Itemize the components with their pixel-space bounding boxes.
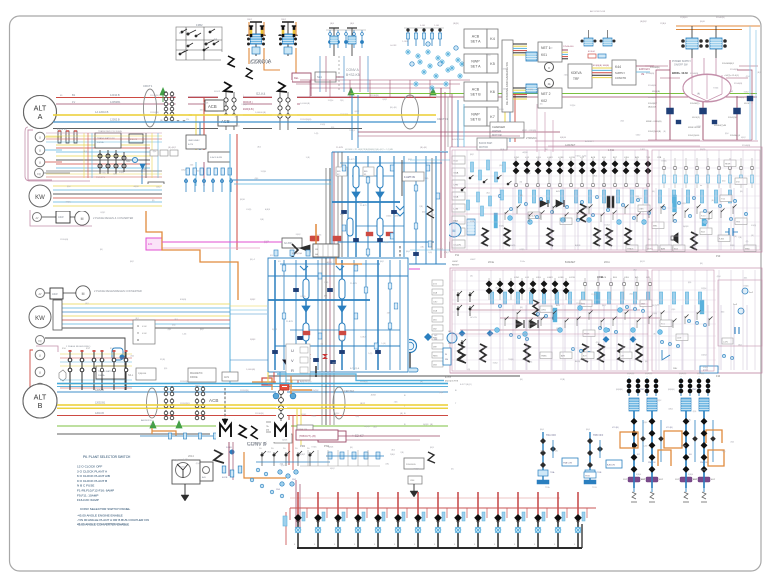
cluster1 box F-AMT-ON <box>400 172 422 181</box>
svg-text:12(B)4: 12(B)4 <box>604 225 610 227</box>
bus ALT B green <box>57 425 448 427</box>
box K-ACS E42B <box>208 152 230 162</box>
ACB A breaker chain right <box>281 97 287 128</box>
grid A blue dot nodes <box>508 216 708 225</box>
bus ALT A red phase <box>56 97 436 99</box>
svg-text:(B)0: (B)0 <box>644 422 648 424</box>
svg-text:2(B): 2(B) <box>190 164 194 166</box>
svg-text:E4P2 E1V: E4P2 E1V <box>639 68 650 71</box>
svg-text:2O11: 2O11 <box>604 261 610 264</box>
CT ellipse ALT B left <box>147 388 158 418</box>
svg-text:(B)1: (B)1 <box>164 368 168 370</box>
svg-text:(B)+(B): (B)+(B) <box>390 107 397 109</box>
yellow riser pair ALT B <box>296 408 298 440</box>
contact chain F7 <box>123 152 125 172</box>
svg-text:(B)4: (B)4 <box>153 151 157 153</box>
svg-text:2O4a: 2O4a <box>488 261 495 264</box>
svg-text:2(B): 2(B) <box>564 75 568 77</box>
svg-text:CRCT1: CRCT1 <box>143 84 153 88</box>
green arrow CRCT1 <box>160 88 166 95</box>
ACB B chain rebuilt <box>276 387 287 421</box>
svg-text:K-ACS E42B: K-ACS E42B <box>210 156 223 159</box>
blue riser pair into grid A <box>457 100 459 147</box>
svg-text:(B): (B) <box>520 181 523 183</box>
ACB A cluster final left <box>218 92 243 134</box>
comb feeder column 12 <box>514 492 527 548</box>
net box NET2 K02 <box>538 88 562 108</box>
svg-text:12052.B: 12052.B <box>110 118 120 122</box>
svg-text:I-ON: I-ON <box>470 221 475 223</box>
contactor M1 ALT B final <box>220 424 231 437</box>
maroon box PN2-0F <box>318 431 346 442</box>
cluster1 capsule resistor 2 <box>373 163 379 187</box>
svg-text:TRB: TRB <box>597 472 602 474</box>
svg-text:RESET: RESET <box>452 265 460 267</box>
svg-text:12052(B): 12052(B) <box>150 112 159 114</box>
svg-text:A/B: A/B <box>202 476 206 479</box>
grid A diamonds bold <box>513 161 652 175</box>
ACB A breaker chain left <box>227 97 233 128</box>
svg-text:12010(B): 12010(B) <box>255 413 264 415</box>
svg-text:K44: K44 <box>615 65 621 69</box>
converter relay chain 4 <box>693 376 716 502</box>
svg-text:32040(B): 32040(B) <box>734 83 743 85</box>
svg-text:A-RESET: A-RESET <box>585 140 594 143</box>
vertical legend box de-ionizing <box>502 40 513 112</box>
cluster1 capsule R4 <box>377 218 383 236</box>
cluster2 diodes v2 <box>302 306 346 312</box>
transformer stack T-CONVA-1 <box>247 22 265 56</box>
leftover contact circles cleanup <box>174 112 192 123</box>
svg-text:0(B)2: 0(B)2 <box>668 409 673 411</box>
ALT A tiny labels row2 <box>186 91 221 121</box>
cluster2 horizontal links <box>268 276 408 346</box>
svg-text:12010(B): 12010(B) <box>60 239 69 241</box>
supply drop mid maroon <box>702 102 704 140</box>
svg-text:S-CLR: S-CLR <box>529 216 536 218</box>
grid B small right boxes <box>540 300 688 359</box>
svg-text:1-(B): 1-(B) <box>306 157 311 159</box>
svg-text:(B)0: (B)0 <box>549 47 553 49</box>
cluster2 vertical rails <box>275 258 400 372</box>
svg-text:VCL(B): VCL(B) <box>612 427 619 429</box>
svg-text:3204M(B): 3204M(B) <box>650 67 660 69</box>
svg-text:B-TR(B).B: B-TR(B).B <box>350 368 360 370</box>
box BC3 STA <box>258 422 278 432</box>
cluster 1 rebuild base <box>331 151 449 269</box>
dashed riser x339 <box>338 56 340 92</box>
bus ALT B blue <box>57 391 448 393</box>
svg-text:0(B)2: 0(B)2 <box>156 186 161 188</box>
cluster1 dense infill <box>334 154 446 264</box>
svg-text:-45.00 ANGLE ENGINE ENABLE: -45.00 ANGLE ENGINE ENABLE <box>77 514 123 518</box>
svg-text:(B): (B) <box>468 369 471 371</box>
grid B inner verticals dense <box>455 270 755 370</box>
bus phase tiny labels <box>404 390 457 426</box>
comb bold overlay <box>290 492 596 548</box>
bus ALT B cyan pair upper <box>57 383 448 385</box>
svg-text:A: A <box>38 112 43 121</box>
svg-text:12(B)4: 12(B)4 <box>591 294 597 296</box>
cluster2 navy nodes v2 <box>272 288 380 364</box>
svg-text:12(B)4: 12(B)4 <box>570 105 576 107</box>
svg-text:(B)4: (B)4 <box>487 54 491 56</box>
svg-text:12(B)4: 12(B)4 <box>364 426 370 428</box>
grid A scatter nodes blue <box>498 194 747 222</box>
svg-text:GDA: GDA <box>454 172 459 175</box>
ACB A contact cluster right rebuilt <box>275 93 294 133</box>
black frame ALT B metering <box>45 338 125 390</box>
svg-text:CONCTD: CONCTD <box>615 76 626 80</box>
svg-text:32040(B): 32040(B) <box>730 69 739 71</box>
svg-text:K(B)4: K(B)4 <box>688 474 694 476</box>
bottom mid blue wire <box>256 461 330 463</box>
grid A diode pair <box>540 200 564 207</box>
svg-text:AB 12/3097-098: AB 12/3097-098 <box>590 10 606 13</box>
svg-text:12540-000: 12540-000 <box>563 46 574 48</box>
orange loop chain4 <box>708 450 724 466</box>
svg-text:2(B): 2(B) <box>419 206 423 208</box>
ACB chains bold <box>227 97 288 130</box>
svg-text:F10: F10 <box>716 375 721 378</box>
magenta wire pair <box>162 241 282 243</box>
svg-text:12052(B): 12052(B) <box>240 390 249 392</box>
svg-text:N B C FUSE: N B C FUSE <box>77 484 94 488</box>
switch box ASW <box>56 211 70 223</box>
cluster1 diode D2 <box>376 192 384 198</box>
svg-text:KO2: KO2 <box>454 161 459 163</box>
svg-text:K5: K5 <box>490 62 495 66</box>
svg-text:(TRB:DVT)--(B): (TRB:DVT)--(B) <box>299 435 316 438</box>
component E3-K44 small <box>588 54 596 58</box>
svg-text:GC: GC <box>434 335 438 337</box>
svg-text:AF(B): AF(B) <box>575 360 581 363</box>
orange loop chain1 <box>612 431 630 448</box>
comb feeder column 6 <box>394 492 407 548</box>
maroon drop pair bottom <box>295 480 297 530</box>
grid B switch marks scatter <box>505 311 713 329</box>
svg-text:2(B): 2(B) <box>733 236 737 238</box>
svg-text:L-DN: L-DN <box>723 342 728 344</box>
contact chain T4 <box>107 150 109 174</box>
svg-text:2 PHASE REGEN/REGEN CONVERTER: 2 PHASE REGEN/REGEN CONVERTER <box>94 289 142 293</box>
svg-text:(B): (B) <box>697 93 700 95</box>
svg-text:BRID+ 10-M: BRID+ 10-M <box>672 71 688 75</box>
box C6S6 ALT B <box>297 425 313 434</box>
stepped cyan link <box>277 374 444 381</box>
svg-text:B+S2-K5: B+S2-K5 <box>346 73 360 77</box>
svg-text:1-(B): 1-(B) <box>324 282 329 284</box>
mini cluster snowflakes <box>417 59 465 71</box>
svg-text:K7: K7 <box>490 115 495 119</box>
cluster 2 rebuild base <box>267 257 409 373</box>
navy boxes cluster2 bottom <box>313 358 321 363</box>
svg-text:(B)(B)(B): (B)(B)(B) <box>627 373 635 375</box>
svg-text:B1: B1 <box>72 93 76 97</box>
svg-text:B-RESET: B-RESET <box>565 261 576 264</box>
blue loop F16 <box>112 348 123 360</box>
remove extra contact columns near ALT A bus <box>176 89 189 112</box>
cluster2 black diode v2 <box>283 360 290 365</box>
coil K01 pair <box>526 52 537 61</box>
cluster2 red tags low <box>302 330 309 334</box>
svg-text:(B): (B) <box>751 235 754 237</box>
aux caps row ALT B <box>168 433 246 439</box>
svg-text:NWP: NWP <box>471 60 480 64</box>
svg-text:(B): (B) <box>520 379 523 381</box>
relay logic grid B frame <box>450 268 762 373</box>
bus ALT A yellow phase <box>53 114 436 116</box>
svg-text:CRCTF1: CRCTF1 <box>437 117 448 121</box>
svg-text:THB: THB <box>646 157 651 159</box>
voltmeter circle V1 <box>35 132 45 142</box>
svg-text:AFB: AFB <box>561 355 566 358</box>
contactor M2 ALT B <box>275 424 287 438</box>
tower posts detail <box>249 26 296 37</box>
zigzag arrow bottom mid <box>214 450 224 463</box>
svg-text:E30(B): E30(B) <box>180 299 187 301</box>
freq meter FQ <box>35 169 44 178</box>
svg-text:(B)1: (B)1 <box>324 295 328 297</box>
ammeter AV A <box>33 213 42 222</box>
dashed trip arrow redraw <box>224 388 226 419</box>
svg-text:(B): (B) <box>652 191 655 193</box>
wire blue drop to KW rows <box>142 169 152 186</box>
orange loop chain1 reposition <box>610 429 638 450</box>
svg-text:(B)0: (B)0 <box>606 238 610 240</box>
ALT B metering wire tangle <box>60 354 132 388</box>
terminal table box C6-G4 restore <box>313 244 339 257</box>
svg-text:(B)1: (B)1 <box>331 127 335 129</box>
ACB box 2 <box>218 115 237 126</box>
svg-text:E-3Y2: E-3Y2 <box>445 377 452 379</box>
svg-text:(B)4: (B)4 <box>196 171 200 173</box>
svg-text:ACS: ACS <box>224 376 229 379</box>
grid A feeder box b-dof <box>477 138 507 150</box>
cluster1 blue diode 1 <box>348 190 356 197</box>
svg-text:12(B): 12(B) <box>560 379 565 381</box>
svg-text:(B)B(B): (B)B(B) <box>616 389 623 391</box>
grid A dark bar component <box>607 196 610 208</box>
svg-text:12(B)4: 12(B)4 <box>637 198 643 200</box>
governor motor circle cluster2 <box>404 340 419 373</box>
power transformer PS-A <box>682 26 703 58</box>
cluster1 chevrons v2 <box>396 206 404 216</box>
supply drop right maroon <box>736 96 738 140</box>
top mid wiring maroon <box>310 77 312 96</box>
legend overlay larger <box>70 450 168 527</box>
svg-text:2(B): 2(B) <box>394 402 398 404</box>
grid A header labels <box>514 144 662 159</box>
svg-text:0(B)2: 0(B)2 <box>741 137 746 139</box>
contactor zigzag pair ALT B <box>240 426 262 440</box>
svg-text:(B)0: (B)0 <box>672 309 676 311</box>
svg-text:NL1: NL1 <box>317 75 322 79</box>
svg-text:1-(B): 1-(B) <box>655 304 660 306</box>
voltmeter circle VB3 <box>35 383 45 393</box>
svg-text:(B)0: (B)0 <box>257 147 261 149</box>
svg-text:MWR - 01K0(B): MWR - 01K0(B) <box>646 121 662 123</box>
maroon box E30-017 <box>296 430 338 440</box>
svg-text:(B)4: (B)4 <box>746 76 750 78</box>
ribbon to KDEVA <box>562 46 574 59</box>
svg-text:VE: VE <box>641 73 645 76</box>
comb feeder column 15 <box>574 492 587 548</box>
stepped cyan link v2 <box>277 374 444 381</box>
svg-text:F9,F11: 10AMP: F9,F11: 10AMP <box>77 493 98 497</box>
svg-text:(B)4: (B)4 <box>717 276 721 278</box>
fuse chains F10-F15 <box>62 348 128 390</box>
svg-text:E02B: E02B <box>222 477 228 479</box>
cluster2 frame v2 <box>268 258 408 372</box>
svg-text:sM: sM <box>621 356 624 358</box>
KW A extra wires <box>52 186 166 210</box>
svg-text:BID: BID <box>337 171 341 173</box>
svg-text:(B)0: (B)0 <box>385 242 389 244</box>
svg-text:A(B)B: A(B)B <box>683 225 689 228</box>
ALT B contact pair chains left <box>164 386 174 420</box>
svg-text:(B)1: (B)1 <box>529 361 533 363</box>
small box 2016 <box>404 458 424 469</box>
svg-text:12052(B)(B): 12052(B)(B) <box>300 119 312 121</box>
arrowhead 32NC <box>300 245 310 252</box>
meter wiring pink B <box>36 346 58 352</box>
cluster2 tiny labels v2 <box>272 261 385 370</box>
svg-text:E3(B): E3(B) <box>713 87 718 89</box>
grid B blue diamonds <box>459 330 637 343</box>
bus ALT B cyan emphasis <box>57 383 448 385</box>
small relay row y178 <box>185 178 187 192</box>
chains bold diamonds overlay <box>627 379 710 488</box>
svg-text:I-ON: I-ON <box>454 209 459 211</box>
meter feed wires <box>45 136 62 138</box>
cluster2 black stubs v2 <box>295 362 297 374</box>
svg-text:K(B)2: K(B)2 <box>296 234 301 236</box>
magenta pair restore <box>162 241 282 243</box>
svg-text:A(B)B: A(B)B <box>523 151 529 154</box>
cluster1 magenta wire <box>348 268 420 270</box>
blue terminal dots pair <box>273 393 279 399</box>
svg-text:1-(B): 1-(B) <box>174 460 179 462</box>
meter wiring loop red B <box>30 350 56 394</box>
svg-text:32040(B): 32040(B) <box>648 97 657 99</box>
svg-text:S(B)2: S(B)2 <box>272 329 278 331</box>
svg-text:E3(B): E3(B) <box>501 68 506 70</box>
svg-text:32040(B): 32040(B) <box>716 17 725 19</box>
CT ellipse CRCT1 <box>144 89 157 127</box>
regen motor M A <box>75 211 89 225</box>
svg-text:AV: AV <box>38 293 41 296</box>
grid B inner maroon frames <box>452 270 714 371</box>
svg-text:PR2: PR2 <box>300 444 306 448</box>
svg-text:3204M(1): 3204M(1) <box>690 103 700 105</box>
svg-text:M: M <box>82 292 85 296</box>
svg-text:TM(B): TM(B) <box>508 359 514 361</box>
svg-text:2(B): 2(B) <box>453 221 457 223</box>
dark riser pair center <box>451 94 453 147</box>
svg-text:12(B)4: 12(B)4 <box>701 288 707 290</box>
cyan long riser to ALT B bus <box>229 122 231 384</box>
power maroon frame lines <box>522 104 758 152</box>
svg-text:(B)4: (B)4 <box>67 186 71 188</box>
cluster1 chevrons <box>394 206 402 216</box>
svg-text:A(B)B: A(B)B <box>584 206 590 209</box>
svg-text:E470: E470 <box>188 144 194 146</box>
maroon link bottom mid <box>338 435 440 437</box>
svg-text:AVB: AVB <box>556 304 561 307</box>
svg-text:2 PHASE REGEN & CONVERTER: 2 PHASE REGEN & CONVERTER <box>93 216 133 220</box>
svg-text:THB05: THB05 <box>627 249 634 251</box>
ACB A contactor flag left <box>224 84 234 97</box>
svg-text:1-(B): 1-(B) <box>582 155 587 157</box>
comb feeder column 1 <box>294 492 307 548</box>
cluster2 blue diodes <box>302 306 346 313</box>
bus ALT B yellow emphasis <box>57 404 448 406</box>
svg-text:E3(B): E3(B) <box>499 109 504 111</box>
box PR2 area K3 <box>274 434 292 443</box>
svg-text:ACB: ACB <box>472 88 480 92</box>
cluster2 red bowties v2 <box>305 354 328 359</box>
cluster2 top components row <box>274 250 390 256</box>
svg-text:E3(B): E3(B) <box>499 225 504 227</box>
svg-text:12(B)4: 12(B)4 <box>328 100 334 102</box>
cluster2 dense infill <box>270 260 406 370</box>
grid B right panel <box>673 280 762 370</box>
cluster1 dashed drop <box>399 246 401 268</box>
wire K44 out <box>636 65 654 67</box>
svg-text:MWR4(2)4B: MWR4(2)4B <box>714 125 727 127</box>
maroon risers bottom mid <box>228 440 230 476</box>
power supply extra maroon lines <box>648 104 752 140</box>
svg-text:AVB: AVB <box>635 156 640 159</box>
svg-text:1-(B): 1-(B) <box>314 133 319 135</box>
green arrows ALT B <box>150 421 182 428</box>
bottom mid relay row <box>259 448 314 466</box>
selector box K6 <box>464 82 498 101</box>
svg-text:CONV B: CONV B <box>247 442 267 448</box>
svg-text:-YIS 00 ANGLE PLANT A OR B BUS: -YIS 00 ANGLE PLANT A OR B BUS COUPLER O… <box>77 518 149 522</box>
relay box KEL maroon <box>292 73 311 82</box>
pilot lamp blue <box>132 157 137 162</box>
svg-text:AVB: AVB <box>556 190 561 193</box>
right edge blue risers <box>742 26 756 147</box>
svg-text:2(B): 2(B) <box>387 313 391 315</box>
svg-text:KDEVA: KDEVA <box>571 71 582 75</box>
svg-text:32040(B): 32040(B) <box>736 97 745 99</box>
svg-text:A(B)B: A(B)B <box>327 261 333 264</box>
svg-text:GDA: GDA <box>500 148 505 151</box>
grid A switch marks scatter <box>505 205 737 223</box>
svg-text:(B)4: (B)4 <box>131 356 135 358</box>
svg-text:I-BGP: I-BGP <box>452 261 458 263</box>
top right corner labels <box>660 21 706 25</box>
svg-text:P10: P10 <box>716 255 721 258</box>
svg-text:(B)(B)(B): (B)(B)(B) <box>679 373 687 375</box>
cluster1 diode D1 <box>352 192 360 198</box>
svg-text:(B): (B) <box>555 450 558 452</box>
svg-text:0(B)2: 0(B)2 <box>636 135 641 137</box>
svg-text:VARIO/ABC: VARIO/ABC <box>188 139 200 142</box>
svg-text:W(B): W(B) <box>730 245 735 247</box>
svg-text:(B): (B) <box>400 413 403 415</box>
red bowtie tags cluster2 <box>305 354 328 359</box>
svg-text:200VA: 200VA <box>97 141 104 144</box>
cluster1 box F-AMT-ON v2 <box>402 172 424 181</box>
svg-text:A(B)B: A(B)B <box>203 101 209 104</box>
svg-text:TRANS RATIO 5V 200VA: TRANS RATIO 5V 200VA <box>98 130 122 133</box>
bridge internal wires <box>692 58 716 96</box>
svg-text:(B): (B) <box>653 334 656 336</box>
